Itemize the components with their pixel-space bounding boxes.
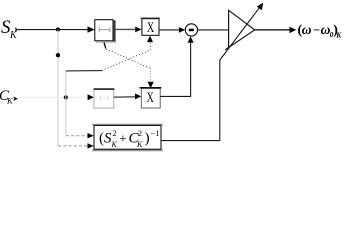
differentiator block D2 xyxy=(94,88,115,108)
arrowhead into multiplier X1 xyxy=(135,27,141,33)
svg-text:2: 2 xyxy=(113,129,117,138)
svg-text:X: X xyxy=(147,20,155,36)
wire S_K input to differentiator D1 xyxy=(18,29,88,31)
output arrowhead xyxy=(290,27,297,33)
input label C_K xyxy=(0,88,14,106)
junction dot node 1 (S tap) xyxy=(56,27,60,31)
dotted diagonal line B up to X1 xyxy=(102,50,150,71)
dashed wire into divider upper input (from C tap) xyxy=(66,135,88,137)
arrowhead into differentiator D2 xyxy=(88,94,94,100)
svg-text:2: 2 xyxy=(138,129,142,138)
wire divider output right then up to gain control xyxy=(161,60,220,141)
svg-text:K: K xyxy=(136,140,143,149)
arrowhead into summing junction xyxy=(179,27,185,33)
svg-text:+: + xyxy=(119,130,126,145)
dashed wire into divider lower input (from S tap) xyxy=(58,145,88,147)
arrowhead into multiplier X2 xyxy=(135,94,141,100)
differentiator D2 glyph (faint) xyxy=(100,96,108,101)
input arrowhead after C_K xyxy=(13,96,18,101)
arrowhead down into X2 top xyxy=(148,82,154,89)
wire X1 to summing junction xyxy=(159,29,180,31)
svg-text:K: K xyxy=(111,140,118,149)
arrowhead into divider upper input xyxy=(88,133,94,138)
arrowhead up into summing junction bottom xyxy=(188,36,194,43)
svg-text:K: K xyxy=(9,30,18,41)
dotted line B vertical into X1 bottom xyxy=(150,43,152,50)
faint wire C_K input to differentiator D2 xyxy=(18,96,88,98)
amplifier triangle (variable gain) xyxy=(225,10,255,50)
differentiator D1 glyph xyxy=(99,27,110,32)
wire D1 to multiplier X1 xyxy=(116,28,136,30)
multiplier block X2 xyxy=(140,87,162,108)
dotted line A vertical into X2 top xyxy=(149,68,151,81)
tick below differentiator D1 (start of dotted cross line A) xyxy=(104,43,106,49)
svg-text:−: − xyxy=(313,23,320,37)
svg-text:ω: ω xyxy=(302,22,312,37)
input label S_K xyxy=(1,17,18,41)
gain control arrow through amplifier xyxy=(220,7,260,60)
wire vertical C tap line (x=66) xyxy=(65,71,67,136)
wire C tap up-and-right horizontal (line B) xyxy=(66,70,102,72)
dotted line A: diagonal from D1 tick down to X2 xyxy=(106,49,150,68)
junction dot node 3 (C tap) xyxy=(64,95,68,99)
wire X2 output right then up to summing junction xyxy=(160,42,190,96)
svg-text:X: X xyxy=(147,90,155,106)
divider block label (S_K^2 + C_K^2)^-1 xyxy=(99,128,159,149)
divider block (S^2+C^2)^-1 xyxy=(92,124,163,152)
svg-text:−1: −1 xyxy=(150,128,159,138)
svg-text:): ) xyxy=(145,131,150,147)
arrowhead into differentiator D1 xyxy=(88,26,95,32)
multiplier block X1 xyxy=(140,17,160,36)
arrowhead into divider lower input xyxy=(88,143,94,148)
wire D2 to multiplier X2 xyxy=(114,96,136,98)
input arrowhead after S_K xyxy=(15,27,19,32)
svg-text:K: K xyxy=(6,96,14,106)
summing junction (minus) xyxy=(185,24,197,36)
arrowhead up into X1 bottom xyxy=(147,36,153,43)
differentiator block D1 xyxy=(95,20,116,43)
svg-text:K: K xyxy=(335,31,342,40)
junction dot node 2 on S tap line xyxy=(56,53,60,57)
output wire xyxy=(255,29,291,31)
wire vertical S tap line (x=58) down to divider lower input xyxy=(57,30,59,146)
output label (omega - omega0)_K xyxy=(298,22,343,40)
wire summing junction to amplifier xyxy=(198,29,229,31)
